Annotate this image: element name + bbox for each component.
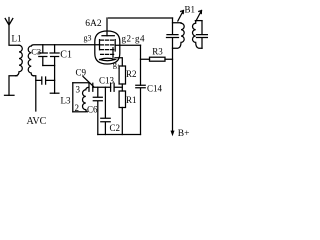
wire L1 secondary bottom to AVC column bbox=[34, 76, 36, 111]
bottom rail bbox=[98, 134, 141, 136]
resistor R2 bbox=[119, 66, 125, 84]
R3 leads bbox=[141, 58, 173, 60]
wire L1 primary bottom to ground bbox=[9, 76, 17, 96]
svg-text:C13: C13 bbox=[99, 76, 115, 86]
anode plate bbox=[102, 35, 114, 37]
oscillator junction wire y=87.2 bbox=[93, 86, 123, 88]
wire R1 bottom to rail bbox=[121, 108, 123, 135]
svg-text:R1: R1 bbox=[126, 95, 137, 105]
capacitor C1 bbox=[50, 45, 59, 66]
capacitor C6 bbox=[93, 87, 102, 134]
capacitor C9 plates bbox=[89, 83, 93, 91]
svg-text:g2·g4: g2·g4 bbox=[122, 34, 146, 44]
resistor R3 bbox=[150, 57, 166, 61]
svg-text:g1: g1 bbox=[113, 59, 121, 71]
oscillator box bottom wire bbox=[73, 111, 86, 113]
svg-text:C1: C1 bbox=[60, 50, 72, 61]
svg-text:R2: R2 bbox=[126, 69, 137, 79]
B1 right coil bbox=[193, 21, 203, 49]
wire R2 bottom to junction bbox=[121, 84, 123, 91]
capacitor C13 plates bbox=[111, 83, 115, 91]
svg-text:C9: C9 bbox=[76, 68, 87, 78]
svg-text:C14: C14 bbox=[147, 84, 163, 94]
wire C3/C1 bottoms join and drop bbox=[43, 66, 55, 94]
B1 left capacitor bbox=[167, 18, 179, 131]
right grid rail (g2,g4 connection) bbox=[114, 40, 116, 51]
svg-text:3: 3 bbox=[76, 85, 81, 95]
svg-text:6A2: 6A2 bbox=[85, 19, 102, 29]
svg-text:2: 2 bbox=[75, 103, 80, 113]
cathode lens bbox=[100, 58, 115, 60]
top rail (anode to B1) bbox=[109, 17, 173, 19]
svg-text:C2: C2 bbox=[110, 123, 121, 133]
svg-text:B+: B+ bbox=[178, 129, 190, 139]
svg-text:R3: R3 bbox=[152, 47, 163, 57]
inductor L1 primary winding bbox=[16, 45, 23, 75]
B1 right tuning arrow bbox=[196, 11, 202, 22]
left grid rail (g3 connection) bbox=[99, 40, 101, 50]
svg-text:L1: L1 bbox=[12, 34, 22, 44]
svg-text:g3: g3 bbox=[84, 34, 92, 43]
resistor R1 bbox=[119, 91, 125, 108]
wire L1 secondary top to g3 line bbox=[31, 45, 99, 46]
svg-text:AVC: AVC bbox=[27, 116, 47, 127]
antenna bbox=[5, 18, 19, 46]
B1 right bar bbox=[195, 20, 202, 22]
capacitor C2 bbox=[101, 87, 110, 134]
C9 leader line bbox=[83, 77, 94, 87]
B1 left tuning arrow bbox=[178, 11, 184, 22]
tube top lead bbox=[106, 18, 108, 36]
B1 right capacitor bbox=[197, 21, 208, 49]
inductor L1 secondary winding bbox=[28, 46, 33, 76]
capacitor (AVC bypass) bbox=[36, 77, 55, 84]
inductor L3 winding bbox=[83, 87, 89, 112]
svg-text:C3: C3 bbox=[31, 47, 41, 57]
ground (bypass) bbox=[50, 92, 59, 94]
grid g1 (dashed) bbox=[101, 53, 115, 55]
B+ arrow bbox=[172, 130, 174, 133]
grid g5 (dashed) bbox=[101, 39, 115, 41]
grid g4 (dashed) bbox=[101, 44, 115, 46]
grid g3 (dashed) bbox=[101, 49, 115, 51]
capacitor C14 bbox=[136, 85, 145, 134]
cathode lead out bbox=[113, 48, 122, 66]
g2g4 / C14 column bbox=[140, 45, 142, 85]
B1 left coil bbox=[173, 23, 185, 49]
tube envelope U1 6A2 bbox=[95, 31, 120, 64]
svg-text:L3: L3 bbox=[61, 96, 71, 106]
svg-text:B1: B1 bbox=[185, 5, 196, 15]
oscillator box left wire bbox=[72, 83, 74, 112]
svg-text:C6: C6 bbox=[87, 105, 98, 115]
capacitor C3 bbox=[38, 45, 47, 66]
g2g4 lead to the right bbox=[115, 44, 140, 46]
oscillator box top wire bbox=[73, 82, 89, 84]
ground (antenna coil) bbox=[5, 94, 15, 96]
